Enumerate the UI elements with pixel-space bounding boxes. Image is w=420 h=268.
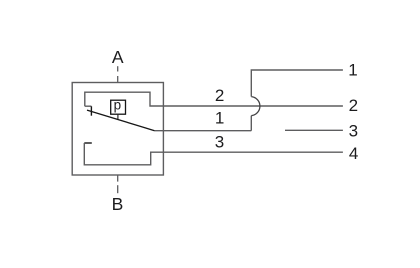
switch body outline S1 bbox=[72, 83, 163, 176]
svg-text:p: p bbox=[114, 98, 122, 113]
fixed contact step bbox=[85, 105, 92, 107]
fixed contact bar and wire to pin 2 bbox=[85, 92, 343, 106]
lower contact and wire to pin 4 bbox=[84, 143, 343, 165]
wire stub pin 3 bbox=[285, 129, 343, 131]
svg-text:1: 1 bbox=[215, 108, 224, 127]
pressure actuator box bbox=[111, 100, 126, 114]
svg-text:2: 2 bbox=[215, 86, 224, 105]
svg-text:1: 1 bbox=[348, 60, 357, 79]
contact tick lower bbox=[84, 142, 92, 144]
riser upper segment and wire to pin 1 bbox=[251, 70, 343, 97]
contact tick upper bbox=[90, 106, 92, 115]
svg-text:2: 2 bbox=[349, 96, 358, 115]
leader dash A lower bbox=[117, 76, 119, 82]
leader dash A upper bbox=[117, 66, 119, 71]
svg-text:3: 3 bbox=[215, 133, 224, 152]
svg-text:3: 3 bbox=[349, 121, 358, 140]
svg-text:B: B bbox=[112, 194, 124, 214]
leader dash B lower bbox=[117, 185, 119, 193]
svg-text:4: 4 bbox=[349, 144, 358, 163]
crossover hop arc bbox=[251, 97, 260, 116]
wire common to riser bbox=[155, 130, 252, 132]
moving contact blade bbox=[87, 110, 155, 131]
riser lower segment bbox=[250, 116, 252, 131]
svg-text:A: A bbox=[112, 47, 124, 67]
actuator stem bbox=[117, 114, 119, 120]
leader dash B upper bbox=[117, 175, 119, 181]
